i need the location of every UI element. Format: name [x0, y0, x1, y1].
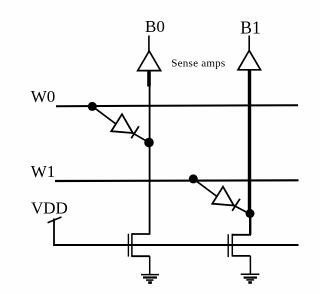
wire Q0 drain — [132, 233, 151, 235]
wire W0 — [56, 105, 298, 106]
diode D2 anode wire — [193, 179, 221, 200]
svg-text:W1: W1 — [31, 162, 56, 181]
wire B0 thick stub — [147, 71, 151, 87]
VDD tick — [48, 217, 62, 223]
wire B1 lower segment — [249, 214, 251, 235]
diode D2 triangle — [212, 187, 234, 206]
svg-text:Sense amps: Sense amps — [171, 57, 225, 69]
wire Q1 ground stem — [249, 256, 251, 274]
wire Q1 source — [232, 255, 250, 257]
wire W1 — [55, 179, 299, 182]
wire B1 thick segment — [248, 70, 251, 214]
wire Q1 drain — [232, 234, 251, 236]
transistor Q1 gate bar — [227, 234, 229, 257]
diode D2 cathode wire — [232, 204, 251, 214]
diode D1 triangle — [111, 114, 133, 133]
svg-text:VDD: VDD — [31, 199, 68, 218]
wire VDD rail — [53, 244, 298, 246]
ground G0 — [141, 275, 159, 283]
svg-text:B0: B0 — [145, 17, 165, 36]
diode D2 cathode bar — [232, 199, 240, 211]
diode D1 cathode wire — [131, 132, 150, 143]
transistor Q0 gate bar — [127, 234, 129, 257]
ground G1 — [241, 274, 260, 282]
wire B1 lead — [248, 36, 250, 52]
svg-text:B1: B1 — [240, 17, 260, 37]
diode D1 cathode bar — [131, 126, 139, 138]
sense amp U0 — [138, 51, 161, 71]
wire VDD vertical — [53, 219, 55, 246]
junction dot W1-D2 — [189, 174, 198, 183]
transistor Q1 channel bar — [231, 234, 233, 257]
wire Q0 ground stem — [149, 256, 151, 274]
transistor Q0 channel bar — [131, 233, 133, 257]
svg-text:W0: W0 — [31, 87, 56, 106]
wire Q0 source — [132, 255, 150, 257]
junction dot D1-B0 — [144, 138, 154, 148]
junction dot D2-B1 — [246, 209, 255, 218]
wire B0 lead — [148, 36, 150, 52]
wire B0 bit line — [149, 86, 151, 234]
junction dot W0-D1 — [88, 102, 97, 111]
sense amp U1 — [238, 51, 261, 70]
diode D1 anode wire — [92, 106, 120, 127]
